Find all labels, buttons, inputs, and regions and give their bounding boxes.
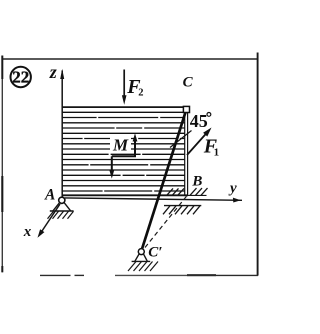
corner square at C — [183, 106, 189, 112]
force F2 arrow — [123, 70, 125, 100]
frame top border — [2, 58, 259, 60]
svg-text:A: A — [44, 186, 55, 203]
45 deg leader line — [170, 131, 192, 148]
problem number badge 22 — [11, 67, 31, 87]
ground line under B — [164, 205, 201, 207]
support ledge right of B — [188, 194, 207, 196]
hinge circle at C' — [138, 249, 144, 255]
ground line at A — [50, 210, 74, 212]
svg-text:B: B — [191, 173, 202, 189]
ground hatching at C' — [128, 262, 158, 272]
svg-text:1: 1 — [214, 146, 220, 158]
svg-text:M: M — [112, 135, 129, 154]
svg-text:z: z — [49, 62, 57, 82]
frame right border — [257, 53, 259, 276]
support at C': triangle legs — [135, 254, 139, 261]
ground hatching under B — [163, 206, 200, 215]
hinge support at A: triangle legs — [53, 203, 60, 211]
plate right edge (double line) — [184, 107, 186, 196]
degree symbol — [207, 113, 211, 117]
force F1 arrow — [187, 133, 206, 155]
z axis (also plate left edge) — [61, 71, 63, 198]
moment M couple: up arrow — [134, 140, 136, 157]
label M (white backing) — [110, 136, 131, 152]
x axis — [41, 204, 60, 233]
svg-text:y: y — [228, 180, 237, 196]
moment M connector — [112, 155, 136, 157]
y axis — [65, 198, 243, 200]
support hatching above B line (right group) — [190, 188, 208, 195]
svg-text:22: 22 — [12, 68, 29, 87]
ground hatching at A — [48, 211, 74, 219]
moment M down arrow — [111, 156, 113, 172]
plate hatch lines — [63, 112, 185, 191]
support hatching above B line (left group) — [167, 188, 185, 195]
dashed projection line C'B — [145, 196, 187, 247]
svg-text:x: x — [23, 224, 32, 240]
rod CC' — [142, 110, 187, 251]
svg-text:C′: C′ — [148, 245, 162, 261]
svg-text:45: 45 — [190, 111, 208, 131]
frame bottom border (broken scan line) — [40, 274, 258, 276]
svg-text:C: C — [183, 74, 194, 90]
svg-text:2: 2 — [138, 88, 143, 99]
hinge circle at A — [59, 197, 65, 203]
plate top edge — [62, 106, 188, 108]
z axis arrowhead — [60, 69, 64, 79]
plate bottom edge — [62, 194, 188, 196]
frame left border — [1, 56, 3, 273]
ground line at C' — [132, 260, 151, 262]
